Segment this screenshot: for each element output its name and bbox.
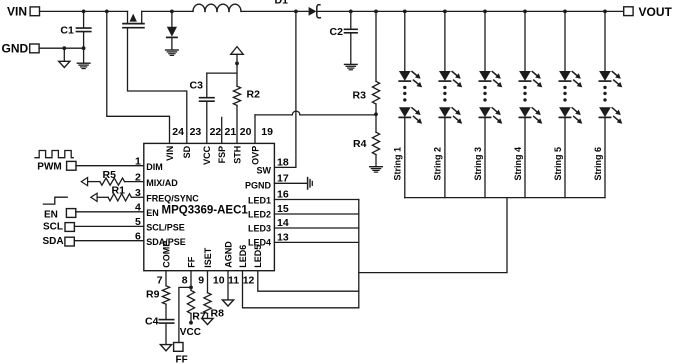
capacitor C2 <box>349 10 353 14</box>
ground (R4) <box>370 166 383 168</box>
svg-text:21: 21 <box>225 126 237 138</box>
wire VIN rail left <box>40 10 128 12</box>
svg-text:LED1: LED1 <box>248 195 271 205</box>
svg-text:DIM: DIM <box>146 162 163 172</box>
ground (R8) <box>202 318 213 324</box>
svg-text:PWM: PWM <box>37 162 61 173</box>
wire LED3 pin 14 <box>274 227 358 229</box>
wire inductor to D1 <box>241 10 309 12</box>
svg-text:GND: GND <box>2 42 29 56</box>
svg-text:R9: R9 <box>146 289 160 301</box>
svg-text:23: 23 <box>190 126 202 138</box>
svg-text:LED2: LED2 <box>248 209 271 219</box>
svg-text:AGND: AGND <box>223 241 233 268</box>
svg-text:8: 8 <box>182 275 188 287</box>
svg-text:FF: FF <box>186 256 196 267</box>
svg-text:VCC: VCC <box>180 327 201 338</box>
svg-text:VCC: VCC <box>202 145 212 165</box>
diode clamp (freewheel) <box>170 10 174 14</box>
svg-text:String 4: String 4 <box>513 147 523 181</box>
svg-text:11: 11 <box>228 275 239 287</box>
waveform icon sync step <box>43 197 67 204</box>
svg-text:R2: R2 <box>247 89 261 101</box>
node OVP divider tap <box>374 112 378 116</box>
node STH <box>235 62 239 66</box>
svg-text:EN: EN <box>146 208 159 218</box>
svg-text:C1: C1 <box>60 25 74 37</box>
svg-text:C4: C4 <box>145 316 159 328</box>
arrow STH reference <box>231 47 244 55</box>
svg-text:PGND: PGND <box>245 181 272 191</box>
wire bus to strings <box>359 198 507 273</box>
svg-text:12: 12 <box>243 275 255 287</box>
svg-text:SCL: SCL <box>43 222 63 233</box>
ground (GND terminal) <box>63 48 65 61</box>
ground (C1) <box>77 62 90 64</box>
wire drain to inductor <box>142 10 193 12</box>
node VIN junctions <box>82 10 86 14</box>
svg-text:MIX/AD: MIX/AD <box>146 178 178 188</box>
svg-text:VIN: VIN <box>7 5 27 19</box>
svg-text:LED5: LED5 <box>253 245 263 268</box>
wire LED2 pin 15 <box>274 213 358 215</box>
svg-text:ISET: ISET <box>203 247 213 268</box>
ground (clamp diode) <box>166 49 179 51</box>
svg-text:C2: C2 <box>330 26 344 38</box>
svg-text:SCL/PSE: SCL/PSE <box>146 223 185 233</box>
svg-text:18: 18 <box>277 157 289 169</box>
wire PWM to DIM pin 1 <box>76 165 144 167</box>
svg-text:FSP: FSP <box>217 146 227 164</box>
wire to FF terminal <box>179 287 191 342</box>
svg-text:OVP: OVP <box>250 146 260 165</box>
svg-text:D1: D1 <box>275 0 289 6</box>
svg-text:LED3: LED3 <box>248 223 271 233</box>
svg-text:MPQ3369-AEC1: MPQ3369-AEC1 <box>162 205 249 217</box>
wire LED5 pin 12 <box>258 271 359 292</box>
svg-text:7: 7 <box>157 275 163 287</box>
svg-text:String 2: String 2 <box>433 147 443 181</box>
svg-text:22: 22 <box>210 126 222 138</box>
svg-text:String 3: String 3 <box>473 147 483 181</box>
ground (C4) <box>160 345 171 351</box>
waveform icon PWM <box>35 151 73 158</box>
LED string 1 <box>403 10 407 14</box>
terminal VOUT <box>624 7 633 16</box>
svg-text:FF: FF <box>176 354 188 364</box>
wire VOUT rail <box>318 10 623 12</box>
svg-text:EN: EN <box>44 209 58 220</box>
svg-text:24: 24 <box>172 126 184 138</box>
wire LED6 pin 11 <box>243 271 359 308</box>
svg-text:R4: R4 <box>353 138 367 150</box>
svg-text:FREQ/SYNC: FREQ/SYNC <box>146 194 199 204</box>
svg-text:C3: C3 <box>190 80 204 92</box>
svg-text:SDA: SDA <box>43 236 64 247</box>
wire OVP with hop <box>254 115 256 143</box>
svg-text:String 1: String 1 <box>393 147 403 181</box>
svg-text:19: 19 <box>261 126 273 138</box>
resistor R3 <box>374 10 378 14</box>
wire PGND pin 17 <box>274 182 307 184</box>
wire strings bottom bus <box>405 197 605 199</box>
svg-text:SD: SD <box>182 145 192 158</box>
stub FSP pin 21 <box>221 117 223 143</box>
node FF junction <box>190 271 192 288</box>
node VCC stub <box>189 321 193 325</box>
LED string 5 <box>563 10 567 14</box>
svg-text:STH: STH <box>232 146 242 164</box>
wire SW node <box>294 10 298 14</box>
wire GND <box>39 47 84 49</box>
svg-text:LED6: LED6 <box>238 245 248 268</box>
transistor Q1 PMOS disconnect switch <box>127 11 129 23</box>
svg-text:SW: SW <box>257 165 272 175</box>
svg-text:20: 20 <box>240 126 252 138</box>
svg-text:String 5: String 5 <box>553 147 563 181</box>
ground (PGND) <box>307 178 309 189</box>
svg-text:VOUT: VOUT <box>639 5 673 19</box>
wire gate to pin 23 SD <box>128 28 187 144</box>
svg-text:9: 9 <box>198 275 204 287</box>
svg-text:VIN: VIN <box>165 146 175 161</box>
LED string 3 <box>483 10 487 14</box>
ground (AGND pin 10) <box>227 271 229 300</box>
svg-text:10: 10 <box>213 275 225 287</box>
LED string 4 <box>523 10 527 14</box>
wire LED bus vertical <box>358 200 360 308</box>
LED string 2 <box>443 10 447 14</box>
svg-text:R3: R3 <box>353 90 367 102</box>
wire VIN to pin 24 <box>107 11 170 143</box>
LED string 6 <box>603 10 607 14</box>
svg-text:String 6: String 6 <box>593 147 603 181</box>
op-amp U1 MPQ3369-AEC1 IC body <box>144 143 275 270</box>
ground (C2) <box>345 63 358 65</box>
svg-text:COMP: COMP <box>161 241 171 268</box>
terminal FF <box>174 343 183 352</box>
inductor L1 <box>193 4 205 11</box>
wire LED1 pin 16 <box>274 199 358 201</box>
wire LED4 pin 13 <box>274 241 358 243</box>
